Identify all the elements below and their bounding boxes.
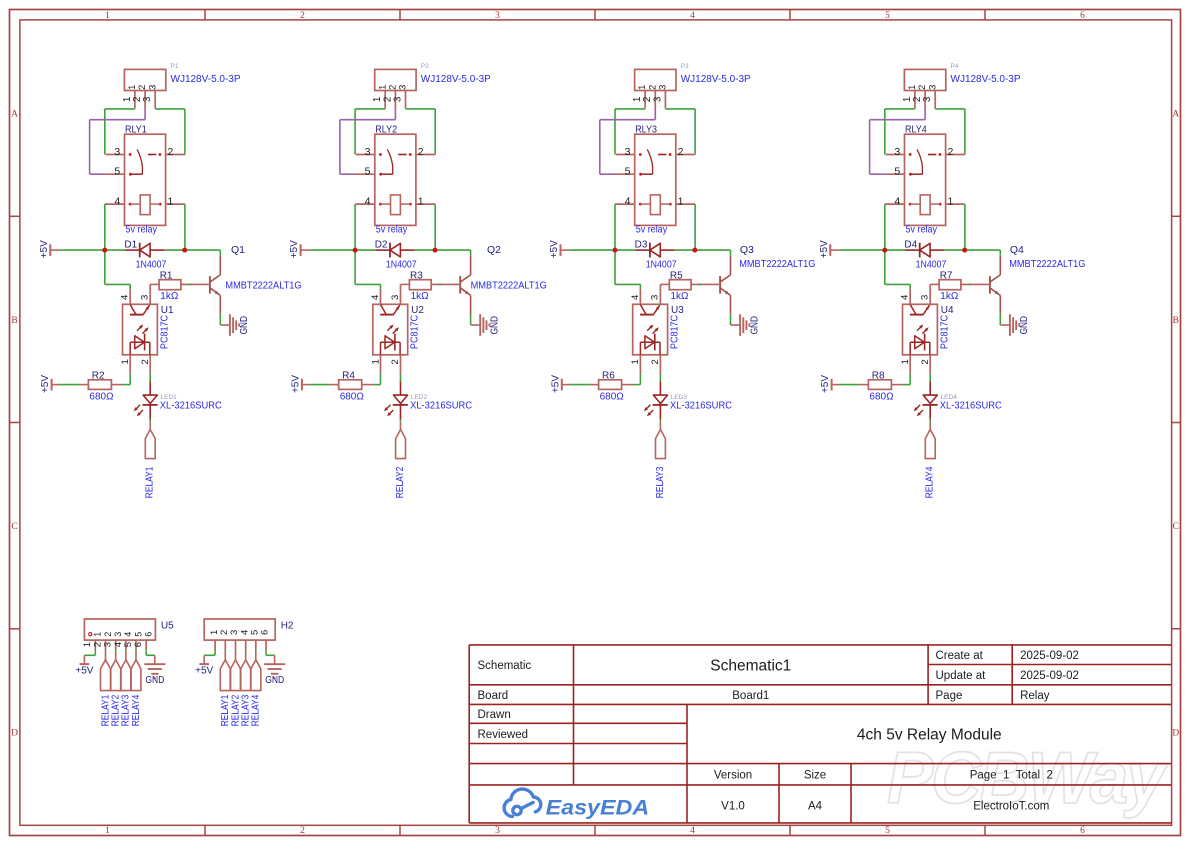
svg-text:1kΩ: 1kΩ [940, 291, 959, 302]
svg-text:3: 3 [398, 85, 408, 90]
svg-text:5: 5 [894, 166, 900, 178]
svg-text:D3: D3 [635, 240, 648, 251]
svg-text:1kΩ: 1kΩ [411, 291, 430, 302]
svg-text:Page: Page [936, 690, 963, 702]
svg-text:2: 2 [947, 146, 953, 158]
svg-text:4: 4 [123, 632, 133, 637]
svg-text:4: 4 [120, 295, 131, 300]
svg-text:Schematic: Schematic [478, 660, 532, 672]
svg-text:RELAY1: RELAY1 [144, 466, 156, 498]
svg-text:+5V: +5V [550, 375, 561, 393]
svg-text:2: 2 [917, 85, 927, 90]
svg-text:WJ128V-5.0-3P: WJ128V-5.0-3P [421, 74, 491, 85]
svg-text:4: 4 [894, 195, 900, 207]
svg-text:1N4007: 1N4007 [916, 259, 947, 270]
svg-text:Reviewed: Reviewed [478, 729, 529, 741]
svg-text:2: 2 [647, 85, 657, 90]
svg-text:1N4007: 1N4007 [646, 259, 677, 270]
svg-text:3: 3 [392, 96, 403, 102]
svg-text:1: 1 [105, 826, 110, 836]
svg-text:3: 3 [147, 85, 157, 90]
svg-text:RELAY4: RELAY4 [924, 466, 936, 498]
svg-text:6: 6 [1080, 826, 1085, 836]
svg-text:1: 1 [167, 195, 173, 207]
svg-text:3: 3 [920, 295, 931, 300]
svg-text:1: 1 [907, 85, 917, 90]
svg-text:3: 3 [114, 146, 120, 158]
svg-text:2: 2 [300, 11, 305, 21]
svg-text:1: 1 [377, 85, 387, 90]
svg-text:Version: Version [714, 769, 752, 781]
svg-text:U5: U5 [161, 621, 174, 632]
svg-text:5: 5 [133, 632, 143, 637]
svg-text:Q2: Q2 [487, 244, 501, 256]
svg-text:4: 4 [625, 195, 631, 207]
svg-text:WJ128V-5.0-3P: WJ128V-5.0-3P [951, 74, 1021, 85]
svg-text:GND: GND [239, 316, 250, 334]
svg-text:B: B [11, 316, 17, 326]
svg-text:1kΩ: 1kΩ [671, 291, 690, 302]
svg-text:2: 2 [137, 85, 147, 90]
svg-text:GND: GND [1019, 316, 1030, 334]
svg-text:D4: D4 [904, 240, 917, 251]
svg-text:680Ω: 680Ω [89, 392, 114, 403]
svg-text:1: 1 [418, 195, 424, 207]
svg-text:Size: Size [804, 769, 826, 781]
svg-text:U4: U4 [941, 305, 954, 316]
svg-text:2: 2 [650, 359, 661, 364]
svg-text:5: 5 [114, 166, 120, 178]
svg-text:A: A [1172, 110, 1179, 120]
svg-text:6: 6 [1080, 11, 1085, 21]
svg-text:6: 6 [144, 632, 154, 637]
svg-text:P4: P4 [951, 63, 959, 70]
svg-text:3: 3 [495, 11, 500, 21]
svg-text:XL-3216SURC: XL-3216SURC [160, 400, 222, 411]
svg-text:1: 1 [93, 632, 103, 637]
svg-text:+5V: +5V [290, 375, 301, 393]
svg-text:Board1: Board1 [732, 690, 769, 702]
svg-text:1: 1 [900, 359, 911, 364]
svg-text:R7: R7 [940, 271, 953, 282]
svg-text:5v relay: 5v relay [636, 225, 668, 236]
svg-text:5v relay: 5v relay [376, 225, 408, 236]
svg-text:1: 1 [947, 195, 953, 207]
svg-text:2: 2 [388, 85, 398, 90]
svg-text:680Ω: 680Ω [600, 392, 625, 403]
svg-text:4: 4 [114, 195, 120, 207]
svg-text:5: 5 [885, 826, 890, 836]
svg-text:U1: U1 [161, 305, 174, 316]
svg-text:2: 2 [167, 146, 173, 158]
svg-text:3: 3 [894, 146, 900, 158]
svg-text:3: 3 [658, 85, 668, 90]
svg-text:H2: H2 [281, 621, 294, 632]
svg-text:3: 3 [140, 295, 151, 300]
svg-text:3: 3 [927, 85, 937, 90]
svg-text:1: 1 [678, 195, 684, 207]
svg-text:A4: A4 [808, 800, 823, 812]
svg-text:C: C [11, 522, 17, 532]
svg-text:D: D [11, 728, 18, 738]
svg-text:+5V: +5V [549, 240, 560, 258]
svg-text:2: 2 [678, 146, 684, 158]
svg-text:5: 5 [365, 166, 371, 178]
svg-text:C: C [1173, 522, 1179, 532]
svg-text:3: 3 [652, 96, 663, 102]
svg-text:RELAY3: RELAY3 [654, 466, 666, 498]
svg-text:WJ128V-5.0-3P: WJ128V-5.0-3P [681, 74, 751, 85]
svg-text:PC817C: PC817C [159, 315, 170, 349]
svg-text:3: 3 [650, 295, 661, 300]
svg-text:D: D [1172, 728, 1179, 738]
svg-text:PC817C: PC817C [939, 315, 950, 349]
svg-text:XL-3216SURC: XL-3216SURC [670, 400, 732, 411]
svg-text:PC817C: PC817C [670, 315, 681, 349]
svg-text:WJ128V-5.0-3P: WJ128V-5.0-3P [171, 74, 241, 85]
svg-text:PC817C: PC817C [410, 315, 421, 349]
svg-text:Drawn: Drawn [478, 709, 511, 721]
svg-text:RLY1: RLY1 [125, 124, 147, 135]
svg-text:2: 2 [390, 359, 401, 364]
svg-text:GND: GND [749, 316, 760, 334]
svg-text:+5V: +5V [195, 665, 213, 676]
svg-text:MMBT2222ALT1G: MMBT2222ALT1G [225, 281, 301, 292]
svg-text:Relay: Relay [1020, 690, 1050, 702]
svg-text:3: 3 [922, 96, 933, 102]
svg-text:ElectroIoT.com: ElectroIoT.com [973, 800, 1049, 812]
svg-text:U2: U2 [411, 305, 424, 316]
svg-text:GND: GND [265, 675, 284, 686]
svg-text:+5V: +5V [39, 240, 50, 258]
svg-text:2: 2 [418, 146, 424, 158]
svg-text:+5V: +5V [819, 240, 830, 258]
svg-text:5v relay: 5v relay [126, 225, 158, 236]
svg-text:Create at: Create at [936, 650, 984, 662]
svg-text:U3: U3 [671, 305, 684, 316]
svg-text:MMBT2222ALT1G: MMBT2222ALT1G [1009, 259, 1085, 270]
svg-text:MMBT2222ALT1G: MMBT2222ALT1G [471, 281, 547, 292]
svg-text:R3: R3 [410, 271, 423, 282]
svg-text:R2: R2 [92, 370, 105, 381]
svg-text:4ch 5v Relay Module: 4ch 5v Relay Module [857, 727, 1002, 744]
svg-text:D1: D1 [124, 240, 137, 251]
svg-text:P2: P2 [421, 63, 429, 70]
svg-text:2: 2 [920, 359, 931, 364]
svg-text:3: 3 [625, 146, 631, 158]
svg-text:1N4007: 1N4007 [136, 259, 167, 270]
svg-text:1: 1 [630, 359, 641, 364]
svg-text:2: 2 [103, 632, 113, 637]
svg-text:4: 4 [690, 826, 695, 836]
svg-text:5: 5 [885, 11, 890, 21]
svg-text:3: 3 [113, 632, 123, 637]
svg-text:5v relay: 5v relay [906, 225, 938, 236]
svg-text:GND: GND [489, 316, 500, 334]
svg-text:V1.0: V1.0 [721, 800, 745, 812]
svg-text:RELAY4: RELAY4 [130, 695, 142, 727]
svg-text:Q4: Q4 [1010, 244, 1024, 256]
svg-text:2025-09-02: 2025-09-02 [1020, 650, 1079, 662]
svg-text:XL-3216SURC: XL-3216SURC [410, 400, 472, 411]
svg-text:1: 1 [105, 11, 110, 21]
svg-text:+5V: +5V [289, 240, 300, 258]
svg-text:EasyEDA: EasyEDA [546, 796, 650, 820]
svg-text:RLY3: RLY3 [635, 124, 657, 135]
svg-text:3: 3 [142, 96, 153, 102]
svg-text:+5V: +5V [75, 665, 93, 676]
svg-text:D2: D2 [375, 240, 388, 251]
svg-text:+5V: +5V [40, 375, 51, 393]
svg-text:B: B [1173, 316, 1179, 326]
svg-text:2: 2 [300, 826, 305, 836]
svg-text:P1: P1 [171, 63, 179, 70]
svg-text:4: 4 [690, 11, 695, 21]
svg-text:1N4007: 1N4007 [386, 259, 417, 270]
svg-text:680Ω: 680Ω [340, 392, 365, 403]
svg-text:6: 6 [260, 630, 271, 635]
svg-text:R1: R1 [160, 271, 173, 282]
svg-text:2: 2 [140, 359, 151, 364]
svg-text:5: 5 [625, 166, 631, 178]
svg-text:680Ω: 680Ω [869, 392, 894, 403]
svg-text:A: A [11, 110, 18, 120]
svg-text:Board: Board [478, 690, 509, 702]
svg-text:GND: GND [145, 675, 164, 686]
svg-text:4: 4 [630, 295, 641, 300]
svg-text:Q3: Q3 [740, 244, 754, 256]
svg-text:RELAY4: RELAY4 [250, 695, 262, 727]
svg-text:Schematic1: Schematic1 [710, 657, 791, 674]
svg-text:1: 1 [637, 85, 647, 90]
svg-text:R4: R4 [342, 370, 355, 381]
svg-text:2025-09-02: 2025-09-02 [1020, 670, 1079, 682]
svg-text:1: 1 [127, 85, 137, 90]
svg-text:4: 4 [365, 195, 371, 207]
svg-text:RLY4: RLY4 [905, 124, 927, 135]
svg-text:3: 3 [495, 826, 500, 836]
svg-text:4: 4 [370, 295, 381, 300]
svg-text:XL-3216SURC: XL-3216SURC [940, 400, 1002, 411]
svg-text:RELAY2: RELAY2 [394, 466, 406, 498]
svg-text:R6: R6 [602, 370, 615, 381]
svg-text:R5: R5 [670, 271, 683, 282]
svg-text:Q1: Q1 [231, 244, 245, 256]
svg-text:RLY2: RLY2 [375, 124, 397, 135]
svg-text:Page 1 Total 2: Page 1 Total 2 [970, 769, 1053, 781]
svg-text:4: 4 [900, 295, 911, 300]
svg-text:3: 3 [390, 295, 401, 300]
svg-text:Update at: Update at [936, 670, 987, 682]
svg-text:6: 6 [133, 642, 144, 647]
svg-text:3: 3 [365, 146, 371, 158]
svg-text:+5V: +5V [820, 375, 831, 393]
svg-text:P3: P3 [681, 63, 689, 70]
svg-text:1kΩ: 1kΩ [160, 291, 179, 302]
svg-text:R8: R8 [872, 370, 885, 381]
svg-text:MMBT2222ALT1G: MMBT2222ALT1G [739, 259, 815, 270]
